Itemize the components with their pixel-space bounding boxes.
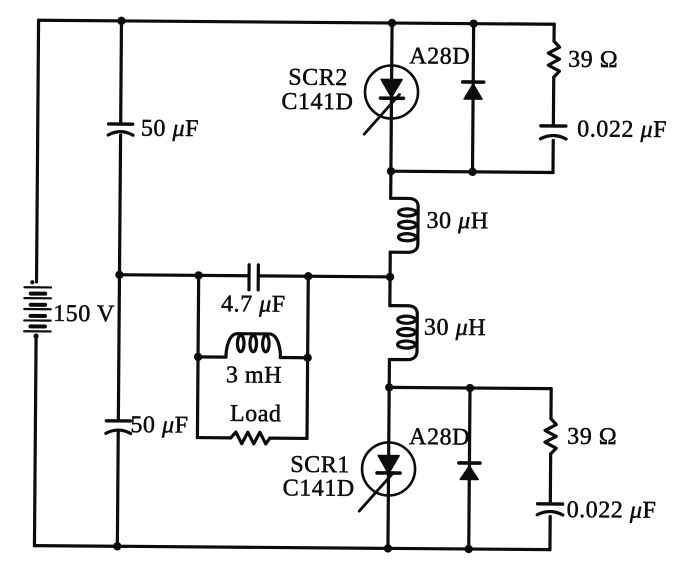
wire snubber1 right vertical lower	[551, 140, 554, 172]
svg-text:39 Ω: 39 Ω	[568, 47, 618, 73]
node junction 3	[469, 19, 477, 27]
inductor L1 30uH top	[390, 198, 418, 252]
diode D2 (A28D top) bar	[463, 80, 484, 84]
SCR2 triangle	[381, 79, 402, 97]
resistor R 39ohm top	[548, 41, 559, 77]
capacitor C 4.7uF plate right	[257, 265, 260, 290]
battery 150V plates	[24, 287, 51, 331]
capacitor C 50uF top: straight plate	[109, 122, 133, 126]
wire capacitor branch upper	[119, 21, 123, 122]
SCR1 gate lead	[359, 473, 392, 511]
node junction 12	[385, 383, 393, 391]
capacitor C 4.7uF plate left	[247, 265, 250, 290]
wire snubber2 right vertical upper	[549, 389, 552, 419]
svg-text:0.022 μF: 0.022 μF	[577, 116, 667, 143]
wire capacitor branch middle	[118, 135, 120, 419]
inductor L3 3 mH	[226, 334, 281, 358]
node junction 15	[384, 544, 392, 552]
node junction 2	[388, 19, 396, 27]
capacitor C 50uF bottom: straight plate	[106, 419, 130, 423]
wire middle rail right segment	[260, 276, 390, 277]
resistor R 39ohm bottom	[545, 419, 556, 454]
wire diode D1 branch	[469, 388, 470, 549]
wire snubber2 right vertical middle	[549, 454, 553, 502]
node junction 8	[304, 272, 312, 280]
svg-text:C141D: C141D	[281, 89, 353, 116]
battery bottom terminal dot	[33, 334, 38, 339]
svg-text:0.022 μF: 0.022 μF	[567, 497, 657, 524]
wire snubber1 bottom line	[391, 171, 553, 172]
diode D1 (A28D bottom) bar	[459, 461, 480, 465]
capacitor 0.022uF bottom: curved plate	[537, 511, 563, 515]
svg-text:C141D: C141D	[283, 475, 355, 502]
battery top terminal dot	[30, 280, 34, 284]
SCR1 triangle	[378, 456, 399, 474]
SCR2 cathode bar	[380, 96, 403, 100]
node junction 10	[194, 353, 202, 361]
wire left vertical upper (battery top lead)	[37, 20, 39, 282]
resistor Load (zigzag)	[231, 432, 270, 444]
wire snubber2 top line	[389, 387, 551, 388]
wire SCR2 anode branch	[391, 23, 392, 171]
wire load box right side	[307, 276, 308, 438]
wire capacitor branch lower	[116, 432, 120, 546]
wire snubber1 right vertical upper	[552, 24, 555, 41]
node junction 6	[115, 271, 123, 279]
node junction 13	[466, 384, 474, 392]
wire 3mH line left	[198, 355, 226, 358]
SCR2 circle	[365, 65, 418, 118]
SCR1 cathode bar	[377, 471, 400, 475]
wire middle rail left segment	[119, 275, 247, 276]
capacitor 0.022uF top: straight plate	[541, 124, 566, 128]
svg-text:39 Ω: 39 Ω	[567, 424, 617, 450]
svg-text:30 μH: 30 μH	[424, 315, 486, 341]
wire load box left side	[197, 275, 198, 437]
node junction 9	[386, 273, 394, 281]
capacitor C 50uF top: curved plate	[108, 132, 133, 136]
diode D1 triangle	[460, 466, 478, 480]
wire middle rail to inductor2	[388, 277, 391, 306]
wire bottom rail	[34, 546, 549, 550]
SCR2 gate lead	[364, 94, 399, 134]
node junction 11	[303, 354, 311, 362]
node junction 4	[387, 167, 395, 175]
svg-text:SCR1: SCR1	[290, 452, 350, 478]
wire top rail	[39, 20, 555, 24]
inductor L2 30uH bottom	[389, 306, 417, 360]
svg-text:A28D: A28D	[409, 43, 470, 69]
capacitor 0.022uF top: curved plate	[540, 135, 566, 139]
diode D2 triangle	[464, 84, 482, 99]
capacitor 0.022uF bottom: straight plate	[538, 502, 563, 506]
svg-text:A28D: A28D	[409, 424, 470, 450]
wire inductor1 to middle rail	[388, 252, 391, 277]
wire load box bottom left	[197, 436, 230, 439]
node junction 7	[194, 271, 202, 279]
svg-text:50 μF: 50 μF	[130, 412, 188, 438]
svg-text:SCR2: SCR2	[288, 65, 348, 91]
svg-text:3 mH: 3 mH	[226, 362, 282, 388]
svg-text:150 V: 150 V	[53, 301, 115, 327]
node junction 5	[468, 168, 476, 176]
wire 3mH line right	[280, 356, 307, 359]
node junction 14	[113, 542, 121, 550]
svg-text:50 μF: 50 μF	[141, 116, 199, 142]
capacitor C 50uF bottom: curved plate	[106, 430, 131, 434]
node junction 16	[465, 545, 473, 553]
wire inductor2 to snubber2 node	[388, 359, 391, 387]
wire SCR2 to inductor1	[389, 171, 392, 198]
SCR1 circle	[362, 442, 415, 495]
svg-text:30 μH: 30 μH	[426, 208, 488, 234]
wire snubber2 right vertical lower	[548, 516, 551, 549]
node junction 1	[117, 17, 125, 25]
svg-text:Load: Load	[230, 401, 282, 427]
wire left vertical lower (battery bottom lead)	[34, 335, 36, 545]
wire snubber1 right vertical middle	[552, 77, 556, 124]
wire load box bottom right	[270, 437, 307, 440]
svg-text:4.7 μF: 4.7 μF	[221, 291, 286, 318]
wire diode D2 branch	[473, 24, 474, 172]
wire SCR1 branch	[388, 387, 389, 548]
